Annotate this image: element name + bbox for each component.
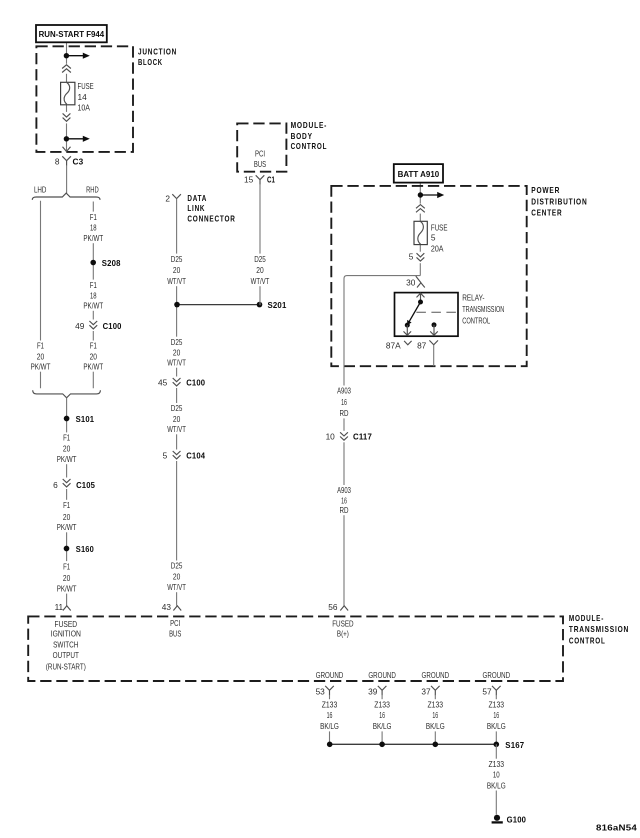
merge brace to S101 [33,390,101,398]
svg-text:14: 14 [78,92,88,102]
svg-text:PK/WT: PK/WT [83,362,103,372]
svg-text:10: 10 [326,432,336,442]
svg-text:F1: F1 [90,280,97,290]
connector chevrons below fuse 14 [61,112,73,124]
svg-text:PK/WT: PK/WT [83,233,103,243]
svg-text:6: 6 [53,480,58,490]
power distribution center dashed box [331,186,526,366]
svg-text:C117: C117 [353,432,372,442]
ground bus wire [330,743,497,745]
relay internal: common post arrow [417,293,425,302]
wire label F1 20 PK/WT (S160-module) [55,561,79,594]
svg-text:16: 16 [379,710,385,720]
svg-text:Z133: Z133 [374,699,390,709]
module pin 56 [328,602,348,612]
svg-text:D25: D25 [254,254,266,264]
wire label F1 18 PK/WT (RHD upper) [81,212,105,244]
svg-text:BODY: BODY [291,132,313,141]
wire label D25 20 WT/VT (C100-C104) [165,403,189,434]
splice S208 [90,260,96,266]
wire merge to module pin 11 [66,398,68,606]
ground wire 37 [434,695,436,745]
wire label F1 20 PK/WT (C105-S160) [55,500,79,533]
svg-text:2: 2 [165,194,170,204]
svg-text:18: 18 [90,291,97,301]
svg-text:30: 30 [406,278,416,288]
wire data link connector to module pin 43 [176,199,178,606]
module-transmission control dashed box [28,616,563,681]
wire label Z133 16 BK/LG (pin 37) [424,699,446,731]
svg-text:S160: S160 [76,544,94,554]
svg-text:PK/WT: PK/WT [57,583,77,593]
ground bus node 2 [379,742,385,748]
svg-text:F1: F1 [63,500,70,510]
svg-text:5: 5 [163,451,168,461]
wire label A903 16 RD (upper) [332,386,356,419]
ground wire 57 [495,695,497,745]
connector chevrons pin 5 below fuse [409,252,427,264]
fuse 14 10A (junction block) [61,81,94,113]
wire label D25 20 WT/VT (C1 branch) [248,254,272,287]
svg-text:BK/LG: BK/LG [320,721,339,731]
svg-text:53: 53 [316,687,326,697]
svg-text:CONTROL: CONTROL [462,316,490,326]
wire S167 to G100 [495,744,497,814]
svg-text:S101: S101 [76,414,95,424]
svg-text:RD: RD [340,505,349,515]
wire label D25 20 WT/VT (DLC upper) [165,254,189,287]
svg-text:Z133: Z133 [322,699,338,709]
module pin 11 [55,602,71,612]
relay internal: common contact [418,300,423,305]
svg-text:C104: C104 [186,451,205,461]
svg-text:C100: C100 [103,321,122,331]
junction node with feed arrow (bottom) [64,136,90,142]
svg-text:DATA: DATA [187,194,207,203]
svg-text:F1: F1 [90,212,97,222]
relay transmission control box [395,293,459,337]
svg-text:C100: C100 [186,378,205,388]
svg-text:GROUND: GROUND [422,670,450,680]
splice S201 left node [174,302,180,308]
wire RHD branch [92,202,94,389]
connector chevrons above fuse 14 [61,64,73,74]
svg-text:F1: F1 [90,341,97,351]
svg-text:87: 87 [417,340,427,350]
svg-text:PCI: PCI [255,148,265,158]
svg-text:8: 8 [55,157,60,167]
connector chevrons above fuse 5 [414,204,426,214]
module-body control dashed box [237,123,286,171]
svg-text:A903: A903 [337,386,351,396]
svg-text:BUS: BUS [254,159,267,169]
module ground pin 37 [421,686,439,697]
wire PDC to module pin 56 [343,366,345,606]
connector C104 pin 5 [163,450,206,462]
svg-text:C105: C105 [76,480,95,490]
wire C3 to LHD/RHD split [66,166,68,193]
wire tee to relay pin 30 and C117 branch [344,276,420,367]
svg-text:20: 20 [173,572,181,582]
ground G100 [492,815,503,823]
split brace LHD/RHD [32,193,100,200]
svg-text:POWER: POWER [531,186,560,195]
svg-text:Z133: Z133 [489,759,505,769]
ground bus node 1 [327,742,333,748]
wire label D25 20 WT/VT (S201-C100) [165,337,189,368]
svg-text:SWITCH: SWITCH [53,640,78,650]
label BATT A910 [394,164,443,183]
svg-text:RUN-START F944: RUN-START F944 [39,29,105,39]
connector C3 pin 8 [55,156,84,166]
splice S160 [64,546,70,552]
svg-text:WT/VT: WT/VT [167,276,186,286]
label RUN-START F944 [36,25,107,42]
wire relay 87 to PDC edge [433,345,435,366]
svg-text:RHD: RHD [86,184,99,194]
svg-text:20: 20 [63,573,71,583]
svg-text:16: 16 [493,710,499,720]
relay internal: coil divider dashes [416,311,458,313]
junction block dashed box [36,46,133,152]
svg-text:FUSE: FUSE [78,81,95,91]
svg-text:S167: S167 [505,740,524,750]
svg-text:5: 5 [431,233,436,243]
svg-text:FUSE: FUSE [431,222,448,232]
svg-text:MODULE-: MODULE- [569,614,604,623]
ground wire 53 [329,695,331,745]
svg-text:TRANSMISSION: TRANSMISSION [569,625,629,634]
svg-text:20A: 20A [431,243,444,253]
svg-text:20: 20 [256,265,264,275]
svg-text:BK/LG: BK/LG [426,721,445,731]
svg-text:16: 16 [341,495,347,505]
svg-text:39: 39 [368,687,378,697]
svg-text:PK/WT: PK/WT [31,362,51,372]
wire label Z133 16 BK/LG (pin 57) [485,699,507,731]
wire label F1 20 PK/WT (RHD) [81,341,105,372]
svg-text:LHD: LHD [34,184,47,194]
svg-text:BUS: BUS [169,629,182,639]
svg-text:BATT A910: BATT A910 [398,169,440,179]
svg-text:C1: C1 [267,174,275,184]
svg-text:56: 56 [328,602,338,612]
svg-text:GROUND: GROUND [316,670,344,680]
svg-text:20: 20 [173,348,181,358]
svg-text:GROUND: GROUND [368,670,396,680]
wire label Z133 16 BK/LG (pin 53) [319,699,341,731]
connector C100 pin 49 [75,320,122,332]
module ground pin 39 [368,686,386,697]
svg-text:WT/VT: WT/VT [251,276,270,286]
svg-text:CONTROL: CONTROL [291,142,328,151]
relay internal: contact 87A [405,323,410,328]
svg-text:JUNCTION: JUNCTION [138,47,177,56]
relay internal: contact 87 [432,322,437,327]
svg-text:CONNECTOR: CONNECTOR [187,214,235,223]
splice S167 [494,742,500,748]
connector C105 pin 6 [53,478,95,490]
wire LHD branch [40,201,42,389]
svg-text:RELAY-: RELAY- [462,292,484,302]
wire label D25 20 WT/VT (C104-module) [165,561,189,593]
svg-text:16: 16 [432,710,438,720]
relay pin 87A [386,340,412,350]
svg-text:IGNITION: IGNITION [51,629,81,639]
svg-text:816aN54: 816aN54 [596,823,637,833]
svg-text:CENTER: CENTER [531,209,562,218]
svg-text:WT/VT: WT/VT [167,358,186,368]
svg-text:10A: 10A [78,103,91,113]
module pin 43 [162,602,181,612]
module ground pin 53 [316,686,334,697]
svg-text:20: 20 [63,444,71,454]
ground wire 39 [381,695,383,745]
svg-text:OUTPUT: OUTPUT [53,650,79,660]
svg-text:D25: D25 [171,254,183,264]
svg-text:20: 20 [63,512,71,522]
svg-text:G100: G100 [507,814,527,824]
svg-text:BLOCK: BLOCK [138,58,163,67]
svg-text:F1: F1 [63,433,70,443]
svg-text:PK/WT: PK/WT [57,454,77,464]
wire from RUN-START F944 box down through junction block to C3 [66,42,68,151]
svg-text:C3: C3 [73,157,84,167]
svg-text:GROUND: GROUND [483,670,511,680]
module ground pin 57 [482,686,500,697]
svg-text:B(+): B(+) [337,628,349,638]
splice S201 right node [257,302,263,308]
splice S201 tie wire [177,304,260,306]
svg-text:DISTRIBUTION: DISTRIBUTION [531,198,587,207]
svg-text:5: 5 [409,252,414,262]
svg-text:10: 10 [493,769,500,779]
svg-text:20: 20 [173,265,181,275]
svg-text:S201: S201 [268,300,287,310]
relay pin 87 [417,340,438,350]
svg-text:16: 16 [341,397,347,407]
svg-text:A903: A903 [337,485,351,495]
svg-text:CONTROL: CONTROL [569,637,606,646]
connector C117 pin 10 [326,431,373,443]
svg-text:11: 11 [55,602,64,612]
svg-text:45: 45 [158,378,168,388]
svg-text:S208: S208 [102,258,121,268]
arrow leaving junction block bottom [63,147,71,152]
wire BATT A910 into PDC [419,183,421,276]
svg-text:TRANSMISSION: TRANSMISSION [462,304,504,314]
svg-text:FUSED: FUSED [332,619,353,629]
relay internal: switch blade [409,302,421,323]
connector C100 pin 45 [158,377,205,389]
junction node with feed arrow (top) [64,53,90,59]
svg-text:BK/LG: BK/LG [487,721,506,731]
svg-text:16: 16 [327,710,333,720]
svg-text:Z133: Z133 [489,699,505,709]
wire label A903 16 RD (lower) [332,485,356,515]
wire label F1 20 PK/WT (S101-C105) [55,432,79,464]
svg-text:D25: D25 [171,337,183,347]
svg-text:PK/WT: PK/WT [57,522,77,532]
wire label F1 20 PK/WT (LHD) [29,341,53,372]
wire label F1 18 PK/WT (RHD lower) [81,280,105,311]
svg-text:37: 37 [421,687,431,697]
wire label Z133 16 BK/LG (pin 39) [371,699,393,731]
svg-text:49: 49 [75,321,85,331]
svg-text:LINK: LINK [187,204,205,213]
svg-text:F1: F1 [37,341,44,351]
svg-text:MODULE-: MODULE- [291,121,328,130]
svg-text:FUSED: FUSED [55,619,78,629]
ground bus node 3 [433,742,439,748]
svg-text:WT/VT: WT/VT [167,424,186,434]
svg-text:PK/WT: PK/WT [83,301,103,311]
wire C1 to splice S201 [259,185,262,305]
svg-text:D25: D25 [171,403,183,413]
svg-text:Z133: Z133 [428,699,444,709]
wire label Z133 10 BK/LG (S167-G100) [485,759,507,791]
battery feed node with arrow [418,192,445,198]
svg-text:(RUN-START): (RUN-START) [46,662,86,672]
splice S101 [64,416,70,422]
svg-text:PCI: PCI [170,618,180,628]
svg-text:20: 20 [90,351,98,361]
svg-text:57: 57 [482,687,492,697]
connector C1 pin 15 [244,174,275,184]
svg-text:D25: D25 [171,561,183,571]
svg-text:20: 20 [37,351,45,361]
svg-text:20: 20 [173,414,181,424]
svg-text:F1: F1 [63,561,70,571]
fuse 5 20A (PDC) [414,221,448,253]
svg-text:87A: 87A [386,340,401,350]
svg-text:WT/VT: WT/VT [167,582,186,592]
svg-text:15: 15 [244,175,254,185]
data link connector pin 2 [165,194,207,204]
svg-text:BK/LG: BK/LG [487,780,506,790]
svg-text:43: 43 [162,602,172,612]
svg-text:18: 18 [90,223,97,233]
relay pin 30 [406,276,425,288]
svg-text:BK/LG: BK/LG [373,721,392,731]
svg-text:RD: RD [340,408,349,418]
